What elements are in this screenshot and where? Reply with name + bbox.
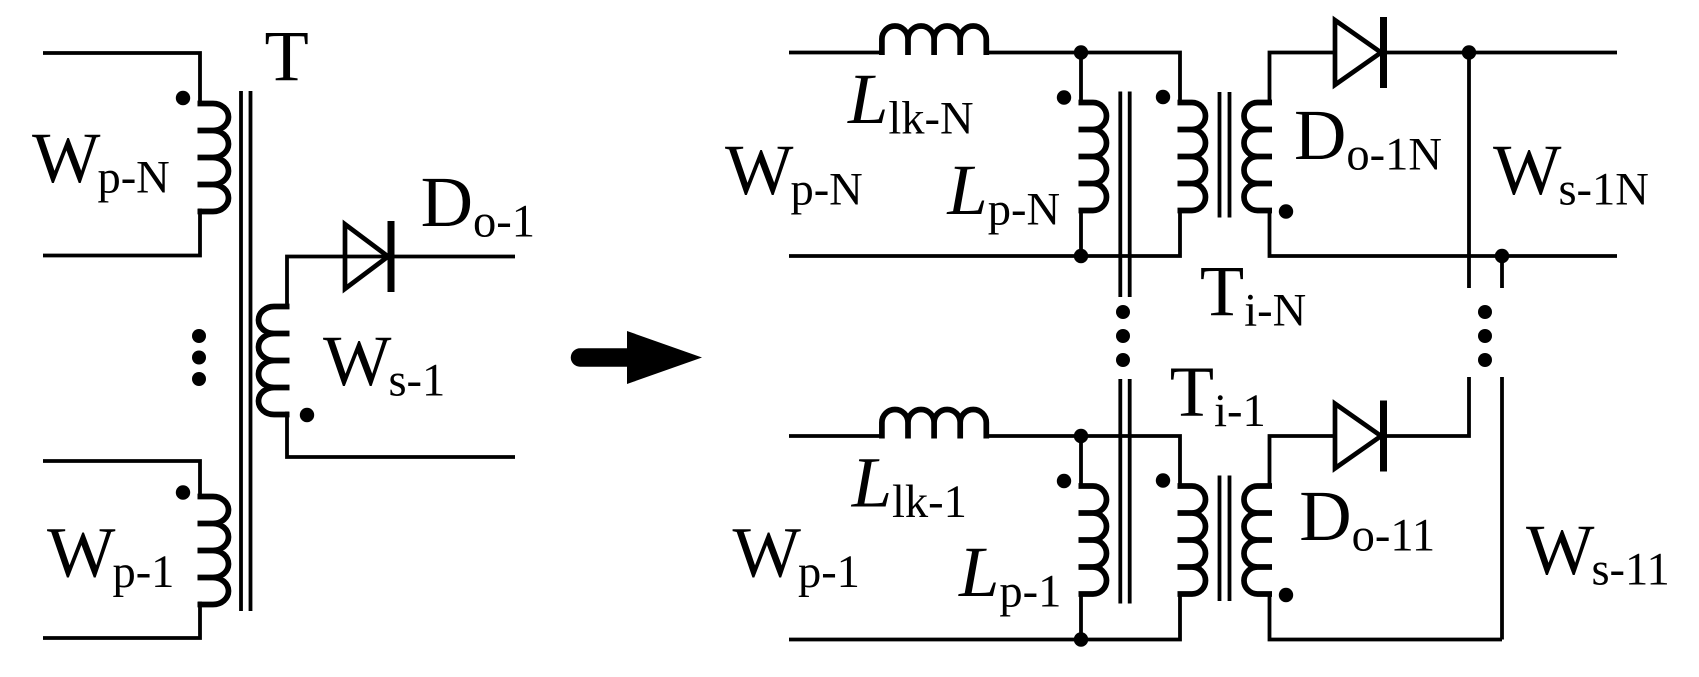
svg-text:T: T [265, 15, 309, 96]
